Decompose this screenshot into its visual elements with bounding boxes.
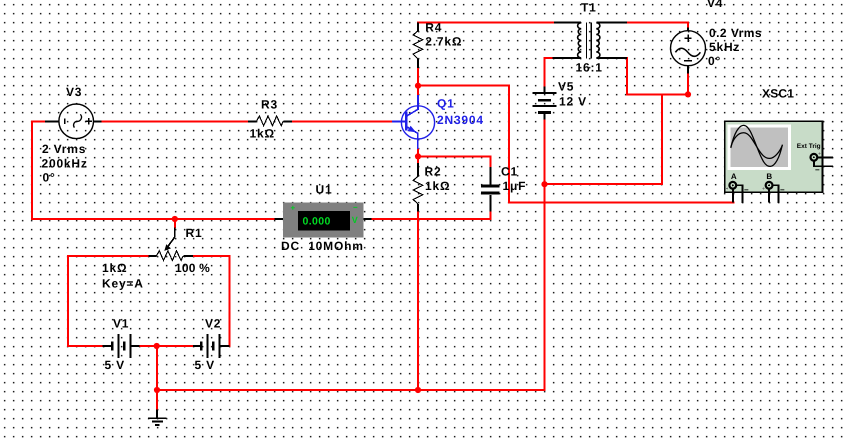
ground (148, 410, 167, 425)
svg-text:V4: V4 (707, 0, 723, 10)
svg-text:12 V: 12 V (559, 94, 587, 108)
svg-text:V: V (352, 215, 358, 225)
wire T1 secondary bottom to V4 minus (627, 58, 688, 95)
svg-text:+: + (291, 203, 296, 212)
svg-text:2 Vrms: 2 Vrms (42, 142, 86, 156)
svg-text:100 %: 100 % (175, 261, 210, 275)
node V5 minus junction (541, 181, 547, 187)
V4 labels (707, 0, 762, 68)
svg-text:5 V: 5 V (195, 358, 215, 372)
wire emitter junction to R2 (417, 156, 419, 163)
node ground junction (154, 387, 160, 393)
svg-text:5 V: 5 V (105, 358, 125, 372)
battery V5 (533, 86, 557, 119)
Q1 labels (437, 96, 484, 127)
R4 labels (425, 20, 462, 48)
AC source V4 (671, 28, 706, 74)
svg-text:XSC1: XSC1 (762, 87, 794, 101)
svg-text:V1: V1 (113, 317, 129, 331)
svg-text:R3: R3 (261, 98, 278, 112)
channel A terminal (729, 182, 736, 189)
wire emitter junction to C1 top (418, 156, 490, 167)
svg-text:A: A (731, 172, 737, 181)
svg-text:Ext Trig: Ext Trig (797, 143, 821, 150)
R3 labels (250, 98, 278, 141)
battery V1 (103, 334, 140, 358)
capacitor C1 (481, 167, 500, 212)
svg-text:0°: 0° (43, 171, 56, 185)
junction node dots (154, 83, 692, 394)
transformer T1 (553, 23, 628, 59)
U1 labels (281, 182, 364, 253)
svg-text:DC 10MOhm: DC 10MOhm (281, 239, 364, 253)
svg-text:0°: 0° (708, 54, 721, 68)
wire Q1 emitter to junction (417, 149, 419, 156)
channel B terminal (766, 182, 773, 189)
svg-text:Key=A: Key=A (102, 276, 144, 290)
V1 labels (105, 317, 130, 372)
svg-text:1kΩ: 1kΩ (425, 179, 450, 193)
svg-text:U1: U1 (316, 182, 333, 196)
wire V4 minus stub (687, 74, 689, 95)
resistor R2 (413, 163, 423, 211)
svg-text:−: − (744, 185, 749, 194)
svg-text:V3: V3 (66, 85, 82, 99)
svg-text:B: B (766, 172, 772, 181)
wire V1 V2 junction to ground (156, 346, 158, 410)
wire V2 plus to R1 right (193, 256, 229, 346)
wire collector junction to scope A (418, 86, 734, 203)
V5 labels (558, 79, 587, 108)
svg-text:R4: R4 (425, 20, 442, 34)
battery V2 (193, 334, 230, 358)
ext trig terminal (811, 154, 818, 161)
wire V5 minus down and ground rail (157, 120, 545, 391)
R1 labels (102, 226, 210, 291)
node wiper junction (172, 216, 178, 222)
node emitter junction (415, 153, 421, 159)
svg-text:−: − (780, 185, 785, 194)
svg-text:R1: R1 (186, 226, 203, 240)
svg-text:Q1: Q1 (437, 96, 455, 110)
svg-text:0.2 Vrms: 0.2 Vrms (709, 26, 762, 40)
V2 labels (195, 317, 222, 372)
node V1 V2 junction (154, 343, 160, 349)
wire R1 left to V1 (68, 256, 149, 346)
wire R1 wiper to multimeter row (174, 219, 176, 228)
svg-text:200kHz: 200kHz (42, 156, 88, 170)
wire R2 bottom to ground rail (417, 212, 419, 391)
wire V3 minus to multimeter row (32, 121, 275, 219)
wire T1 secondary top to V4 plus (627, 23, 688, 28)
V3 labels (42, 85, 88, 185)
wire collector junction to R4 (417, 68, 419, 95)
wire R3 to Q1 base (292, 120, 392, 122)
T1 labels (576, 0, 603, 74)
wire T1 primary bottom to V5 plus (545, 58, 553, 86)
svg-text:T1: T1 (581, 0, 597, 14)
node V4 minus junction (685, 91, 691, 97)
wire C1 bottom to multimeter plus (372, 212, 491, 219)
svg-text:16:1: 16:1 (576, 60, 603, 74)
node R2 ground rail junction (415, 387, 421, 393)
wire R4 top to T1 primary top (418, 22, 554, 24)
wire V5 node to secondary bottom node (545, 94, 663, 184)
resistor R3 (248, 116, 292, 126)
svg-text:C1: C1 (501, 164, 518, 178)
svg-text:V2: V2 (205, 317, 221, 331)
wire V1 plus to V2 minus (140, 345, 193, 347)
svg-text:−: − (353, 203, 358, 212)
node collector junction (415, 83, 421, 89)
svg-text:V5: V5 (558, 79, 574, 93)
oscilloscope XSC1 (725, 121, 833, 202)
wire V3 plus to R3 (102, 120, 249, 122)
C1 labels (501, 164, 526, 193)
svg-text:R2: R2 (425, 164, 442, 178)
transistor Q1 (392, 95, 435, 149)
svg-text:2N3904: 2N3904 (437, 113, 484, 127)
AC source V3 (45, 104, 102, 139)
potentiometer R1 (149, 228, 194, 261)
R2 labels (425, 164, 451, 193)
svg-text:1μF: 1μF (503, 179, 527, 193)
svg-text:−: − (815, 166, 820, 175)
resistor R4 (413, 23, 423, 68)
svg-text:1kΩ: 1kΩ (250, 126, 275, 140)
svg-text:0.000: 0.000 (303, 216, 331, 228)
multimeter U1 (275, 202, 372, 237)
svg-text:5kHz: 5kHz (709, 40, 740, 54)
svg-text:1kΩ: 1kΩ (102, 261, 127, 275)
svg-text:2.7kΩ: 2.7kΩ (425, 34, 462, 48)
